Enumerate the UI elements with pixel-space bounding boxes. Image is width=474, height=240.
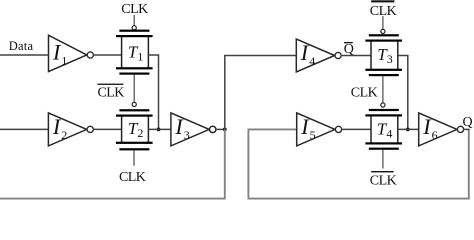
clock label CLKbar (top right) (370, 0, 397, 19)
svg-text:CLK: CLK (119, 170, 146, 185)
wire I2 to T2 (93, 128, 121, 130)
wire CLK to T1 top bubble (133, 15, 135, 26)
inverter I3 (171, 113, 216, 146)
wire T2 output to I3 (148, 128, 171, 130)
wire I6 output to right loop (463, 128, 469, 130)
wire node up and right to I4 (225, 56, 296, 130)
svg-text:Q: Q (463, 115, 473, 130)
wire left feedback loop (0, 129, 225, 198)
inverter I2 (48, 113, 93, 146)
inverter I4 (296, 39, 341, 72)
svg-text:4: 4 (309, 54, 315, 68)
inverter I5 (297, 113, 342, 146)
node T4 output junction (406, 127, 410, 131)
svg-text:CLK: CLK (98, 86, 125, 101)
svg-text:2: 2 (61, 128, 67, 142)
node I3 output junction (223, 127, 227, 131)
wire I4 to T3 (341, 55, 371, 57)
transmission gate T1 (116, 26, 153, 75)
node T2 output junction (157, 127, 161, 131)
svg-text:3: 3 (184, 128, 190, 142)
svg-text:CLK: CLK (351, 86, 378, 101)
svg-text:Data: Data (9, 39, 34, 53)
wire T3 bottom gate to T4 bubble (382, 76, 384, 103)
wire I1 to T1 (93, 54, 121, 56)
inverter I1 (49, 35, 94, 71)
label CLKbar (between T1 and T2) (98, 84, 125, 101)
transmission gate T4 (365, 103, 402, 150)
svg-text:CLK: CLK (121, 2, 148, 17)
svg-text:4: 4 (386, 126, 392, 140)
wire T3 output down to node (398, 56, 408, 130)
wire T4 bottom gate to CLKbar (382, 150, 384, 169)
clock label CLKbar (bottom right) (370, 171, 397, 189)
wire I5 to T4 (341, 128, 371, 130)
label Qbar (344, 42, 354, 57)
transmission gate T3 (365, 29, 402, 76)
wire I3 to node (216, 128, 225, 130)
wire right feedback loop to I5 (248, 129, 468, 198)
wire T1 bottom gate to T2 bubble (133, 75, 135, 103)
wire Data to I1 input (0, 54, 49, 56)
svg-text:6: 6 (432, 128, 438, 142)
svg-text:2: 2 (137, 126, 143, 140)
wire T1 output down to node (148, 55, 158, 129)
wire T4 output to I6 (398, 128, 419, 130)
transmission gate T2 (116, 102, 153, 150)
wire CLKbar to T3 bubble (382, 16, 384, 29)
svg-text:CLK: CLK (370, 174, 397, 189)
svg-text:1: 1 (137, 49, 143, 63)
svg-text:3: 3 (387, 52, 393, 66)
inverter I6 (419, 113, 464, 146)
wire feedback to I2 input (0, 128, 49, 130)
wire T2 bottom gate to CLK label (133, 150, 135, 165)
svg-text:1: 1 (61, 54, 67, 68)
svg-text:5: 5 (310, 128, 316, 142)
svg-text:Q: Q (344, 42, 354, 57)
